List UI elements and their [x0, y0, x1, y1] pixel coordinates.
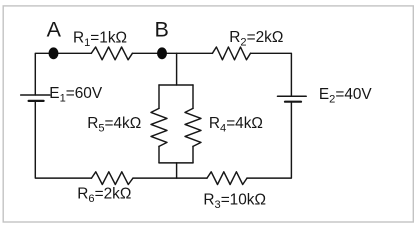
svg-text:E1=60V: E1=60V [49, 85, 103, 105]
resistor R6 [92, 172, 134, 185]
svg-text:R3=10kΩ: R3=10kΩ [203, 192, 266, 212]
svg-text:R2=2kΩ: R2=2kΩ [229, 29, 283, 49]
label R3=10kΩ [203, 192, 266, 212]
wire top-right (R2 to right corner down to E2) [251, 53, 292, 96]
wire left parallel branch upper [158, 85, 160, 108]
label E2=40V [319, 86, 373, 106]
wire bottom-middle (R6 to R3) [133, 177, 207, 179]
svg-text:A: A [47, 18, 62, 42]
battery E1 [21, 95, 50, 101]
wire parallel join bottom bar [159, 162, 193, 164]
wire left-lower (E1 down to bottom-left corner to R6) [35, 101, 91, 178]
node B [157, 47, 167, 59]
wire parallel split top bar [159, 84, 193, 86]
resistor R3 [207, 172, 247, 185]
svg-text:R5=4kΩ: R5=4kΩ [87, 115, 141, 134]
label R2=2kΩ [229, 29, 283, 49]
resistor R1 [91, 47, 132, 60]
resistor R5 [151, 108, 167, 146]
label R6=2kΩ [77, 186, 131, 206]
svg-text:B: B [155, 18, 169, 42]
node A [49, 47, 59, 59]
wire left parallel branch lower [158, 146, 160, 163]
resistor R2 [212, 47, 250, 60]
wire right parallel branch lower [192, 146, 194, 163]
battery E2 [278, 96, 307, 101]
label node B [155, 18, 169, 42]
label R1=1kΩ [73, 30, 127, 50]
label node A [47, 18, 62, 42]
svg-text:R4=4kΩ: R4=4kΩ [209, 115, 263, 134]
wire bottom-right (R3 to corner up to E2) [247, 102, 291, 178]
label E1=60V [49, 85, 103, 105]
wire top-middle (R1 to R2 through node B) [132, 52, 212, 54]
label R4=4kΩ [209, 115, 263, 134]
svg-text:R6=2kΩ: R6=2kΩ [77, 186, 131, 206]
wire middle branch top (node B drop to parallel split) [176, 53, 178, 85]
svg-text:E2=40V: E2=40V [319, 86, 373, 106]
wire top-left (E1 up to corner, through node A to R1) [35, 53, 91, 95]
svg-text:R1=1kΩ: R1=1kΩ [73, 30, 127, 50]
wire middle branch bottom (join to bottom wire) [176, 163, 178, 178]
label R5=4kΩ [87, 115, 141, 134]
wire right parallel branch upper [192, 85, 194, 108]
resistor R4 [185, 108, 201, 146]
